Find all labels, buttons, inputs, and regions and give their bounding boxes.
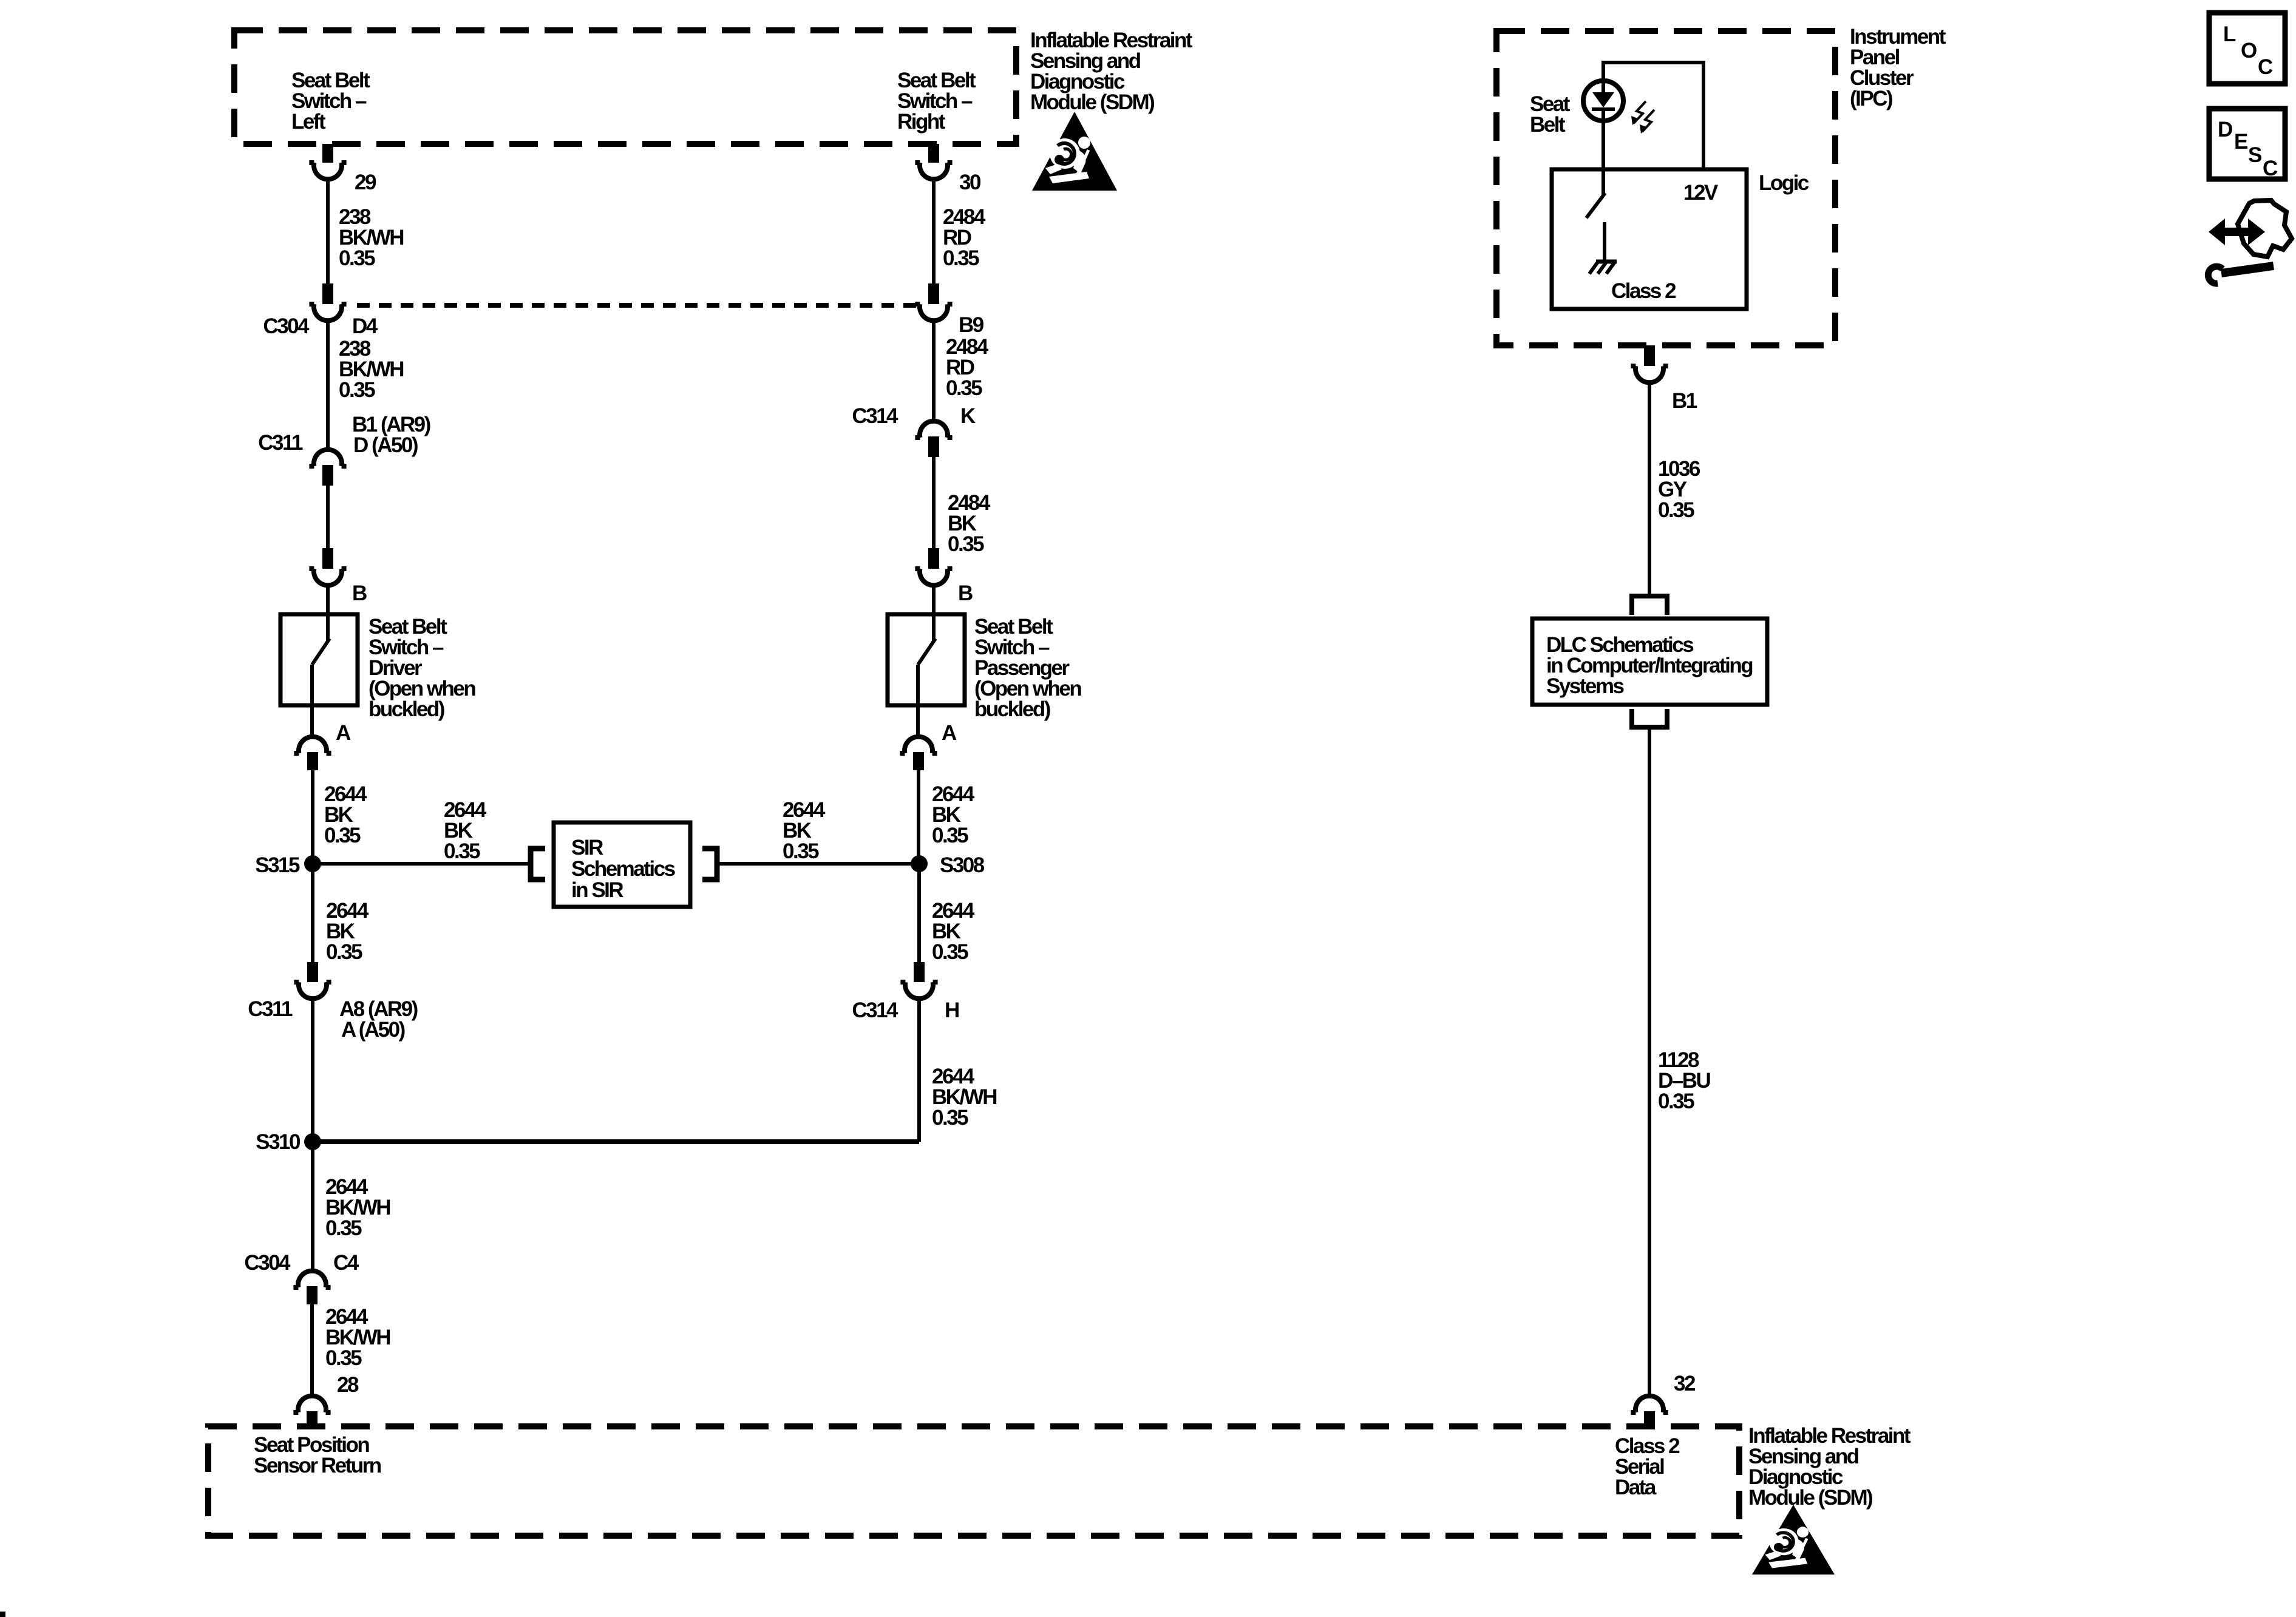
diagnostic tool icon: [2208, 200, 2292, 283]
off-page bracket right of SIR box: [702, 849, 717, 880]
svg-text:C314: C314: [852, 404, 898, 428]
svg-text:0.35: 0.35: [946, 376, 982, 400]
svg-text:S: S: [2248, 143, 2261, 167]
IPC box (dashed): [1496, 31, 1835, 345]
svg-text:0.35: 0.35: [783, 839, 819, 863]
svg-text:C304: C304: [263, 314, 310, 338]
splice S308: [911, 855, 928, 872]
svg-text:K: K: [960, 404, 976, 428]
connector pin 28 (SDM bottom): [293, 1396, 330, 1412]
svg-text:D4: D4: [352, 314, 378, 338]
seat belt indicator LED: [1583, 81, 1623, 121]
ground symbol: [1596, 260, 1617, 264]
svg-text:SIR: SIR: [571, 836, 603, 859]
off-page bracket left of SIR box: [531, 849, 545, 880]
svg-text:C314: C314: [852, 998, 898, 1022]
svg-text:0.35: 0.35: [932, 824, 968, 847]
splice S310: [304, 1133, 321, 1150]
svg-text:32: 32: [1674, 1372, 1696, 1395]
label Seat Belt Switch - Right: [897, 69, 976, 134]
svg-text:(IPC): (IPC): [1850, 87, 1892, 110]
svg-text:S310: S310: [256, 1130, 301, 1154]
svg-text:B: B: [958, 581, 973, 605]
label Inflatable Restraint Sensing and Diagnostic Module (SDM) top: [1030, 29, 1193, 114]
svg-text:Sensor Return: Sensor Return: [254, 1454, 381, 1477]
label Seat Belt (indicator): [1530, 92, 1571, 137]
C304 connector dashed line: [357, 303, 918, 308]
connector C314 pin H: [914, 962, 925, 982]
switch inside logic box: [1601, 121, 1605, 195]
svg-text:0.35: 0.35: [948, 532, 984, 556]
seat belt switch driver (box + blade): [280, 614, 358, 705]
label Instrument Panel Cluster (IPC): [1850, 25, 1946, 110]
svg-text:S315: S315: [255, 853, 300, 877]
connector C304 pin C4: [293, 1271, 330, 1287]
svg-text:Module (SDM): Module (SDM): [1030, 90, 1154, 114]
svg-text:C: C: [2263, 157, 2278, 180]
wire 2644 BK below S308: [917, 864, 921, 962]
svg-text:0.35: 0.35: [444, 839, 480, 863]
svg-text:29: 29: [355, 171, 376, 194]
svg-text:30: 30: [959, 171, 981, 194]
svg-text:C311: C311: [258, 431, 303, 455]
svg-text:0.35: 0.35: [339, 246, 375, 270]
wire S310 horizontal to right branch: [313, 1139, 919, 1144]
svg-text:Systems: Systems: [1546, 674, 1625, 698]
svg-text:Logic: Logic: [1759, 171, 1809, 195]
svg-text:C4: C4: [333, 1251, 359, 1275]
svg-text:C: C: [2258, 55, 2273, 79]
connector C304 pin D4: [322, 283, 333, 304]
connector pin A driver switch: [294, 737, 331, 753]
wire 2644 BK horizontal to SIR: [313, 862, 531, 866]
wire 238 BK/WH upper: [326, 179, 330, 283]
label Inflatable Restraint Sensing and Diagnostic Module (SDM) bottom: [1748, 1424, 1911, 1510]
page corner mark: [0, 1612, 5, 1617]
svg-text:C311: C311: [248, 997, 293, 1021]
svg-text:Belt: Belt: [1530, 113, 1566, 137]
SIR Schematics box: [554, 822, 690, 907]
svg-text:Data: Data: [1615, 1476, 1657, 1499]
SDM top connector box (dashed): [234, 30, 1016, 144]
svg-text:0.35: 0.35: [324, 824, 361, 847]
airbag icon top: [1032, 112, 1117, 191]
svg-text:12V: 12V: [1683, 181, 1719, 205]
svg-text:E: E: [2234, 130, 2247, 154]
connector pin A passenger switch: [900, 737, 937, 753]
LED emission arrows: [1634, 101, 1654, 132]
LOC icon box: [2209, 13, 2285, 84]
svg-text:0.35: 0.35: [1658, 498, 1694, 522]
connector C311 pins B1(AR9)/D(A50): [309, 450, 346, 466]
svg-text:0.35: 0.35: [1658, 1090, 1694, 1113]
off-page bracket below DLC box: [1632, 709, 1667, 727]
svg-text:28: 28: [337, 1373, 359, 1397]
IPC logic box: [1552, 169, 1747, 309]
wire 2644 BK/WH to pin 28: [311, 1142, 314, 1271]
wire 2644 BK/WH down to S310 line: [917, 998, 921, 1142]
wire 2644 BK to S315: [311, 770, 314, 864]
label Class 2 Serial Data: [1615, 1434, 1680, 1499]
wire 2644 BK horizontal SIR to S308: [717, 862, 919, 866]
label Seat Position Sensor Return: [254, 1433, 381, 1477]
svg-text:Class 2: Class 2: [1611, 279, 1676, 303]
wire 2484 RD mid: [932, 320, 936, 421]
svg-text:Schematics: Schematics: [571, 857, 676, 881]
connector pin 32 (SDM bottom): [1631, 1396, 1668, 1412]
svg-text:0.35: 0.35: [943, 246, 979, 270]
svg-text:O: O: [2241, 39, 2257, 63]
svg-text:A (A50): A (A50): [341, 1018, 405, 1042]
connector pin B passenger switch: [928, 548, 939, 569]
wire 238 BK/WH mid: [326, 320, 330, 450]
DLC Schematics box: [1532, 619, 1767, 705]
svg-text:C304: C304: [244, 1251, 291, 1275]
svg-text:D (A50): D (A50): [353, 433, 418, 457]
svg-text:buckled): buckled): [974, 697, 1050, 721]
connector pin B1 (IPC): [1644, 345, 1655, 366]
svg-text:S308: S308: [940, 853, 985, 877]
svg-text:in SIR: in SIR: [571, 878, 623, 902]
connector C304 pin B9: [928, 283, 939, 304]
label Seat Belt Switch - Left: [291, 69, 370, 134]
svg-text:0.35: 0.35: [339, 378, 375, 402]
svg-text:L: L: [2223, 22, 2236, 46]
svg-text:A: A: [942, 721, 957, 745]
wire 1128 D-BU: [1648, 727, 1651, 1396]
svg-text:buckled): buckled): [369, 697, 444, 721]
wire 2644 BK/WH to S310: [311, 998, 314, 1142]
wire loop from LED to logic box: [1603, 63, 1703, 169]
wire 1036 GY: [1648, 382, 1651, 596]
svg-text:A: A: [336, 721, 351, 745]
connector C314 pin K: [915, 421, 952, 438]
svg-text:0.35: 0.35: [932, 1106, 968, 1130]
svg-text:B1: B1: [1672, 389, 1697, 413]
seat belt switch passenger (box + blade): [888, 614, 965, 705]
svg-text:0.35: 0.35: [325, 1346, 362, 1370]
svg-text:Right: Right: [897, 110, 946, 134]
svg-text:0.35: 0.35: [326, 940, 362, 964]
svg-text:D: D: [2218, 118, 2232, 141]
svg-text:0.35: 0.35: [325, 1216, 362, 1240]
wire 2644 BK below S315: [311, 864, 314, 962]
svg-text:B9: B9: [959, 313, 984, 337]
wire 2484 BK: [932, 457, 936, 548]
wire 238 BK/WH lower: [326, 486, 330, 548]
airbag icon bottom: [1752, 1505, 1835, 1575]
wire 2484 RD upper: [932, 179, 936, 283]
svg-text:H: H: [945, 998, 959, 1022]
connector pin 30 (SDM): [928, 144, 939, 163]
connector pin B driver switch: [322, 548, 333, 569]
wire 2644 BK to S308: [917, 770, 920, 864]
DESC icon box: [2209, 109, 2285, 179]
connector C311 pins A8(AR9)/A(A50): [307, 962, 318, 982]
connector pin 29 (SDM): [322, 144, 333, 163]
SDM bottom connector box (dashed): [208, 1426, 1739, 1536]
svg-text:B: B: [352, 581, 367, 605]
off-page bracket above DLC box: [1632, 596, 1667, 615]
svg-text:0.35: 0.35: [932, 940, 968, 964]
svg-text:Left: Left: [291, 110, 326, 134]
splice S315: [304, 855, 321, 872]
svg-text:Module (SDM): Module (SDM): [1748, 1486, 1872, 1510]
